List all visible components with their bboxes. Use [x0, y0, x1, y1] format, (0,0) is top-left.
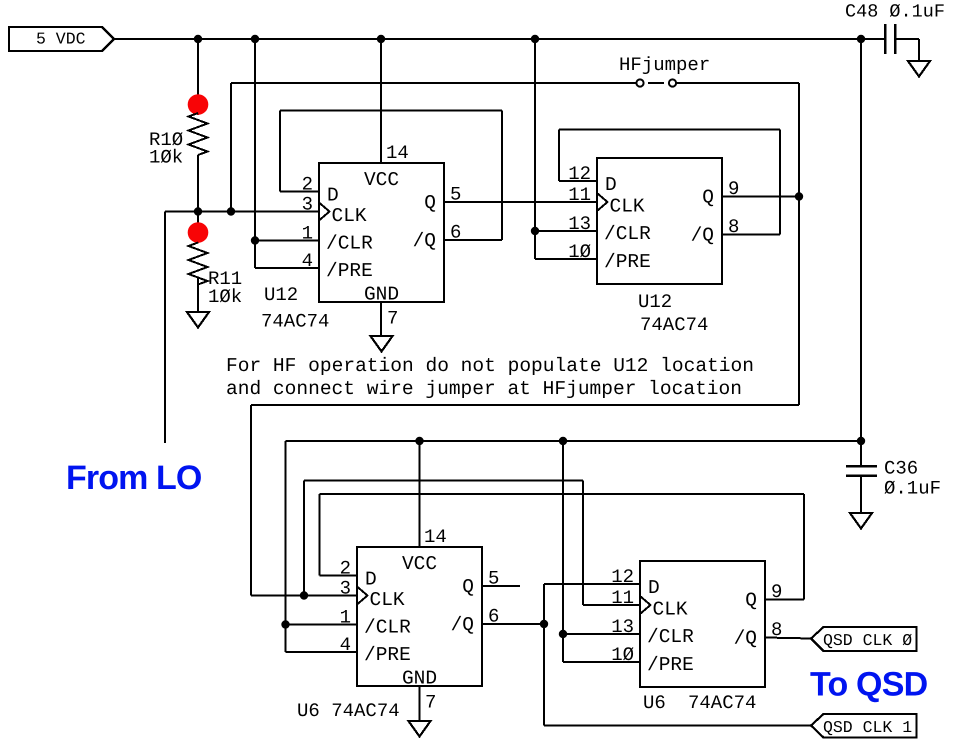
wire clk tie horizontal y480	[304, 480, 583, 482]
svg-text:3: 3	[340, 578, 351, 600]
svg-text:C48 Ø.1uF: C48 Ø.1uF	[845, 2, 945, 23]
svg-text:CLK: CLK	[370, 589, 405, 611]
svg-text:74AC74: 74AC74	[688, 692, 756, 714]
wire ring horizontal y494	[320, 493, 805, 495]
svg-text:/Q: /Q	[691, 225, 714, 247]
wire U12b pin13 CLR	[535, 230, 597, 232]
svg-text:/CLR: /CLR	[604, 223, 651, 245]
svg-text:and connect wire jumper at HFj: and connect wire jumper at HFjumper loca…	[226, 378, 742, 400]
svg-text:D: D	[605, 174, 617, 196]
svg-text:/CLR: /CLR	[364, 617, 411, 639]
wire U6a pin5 Q stub	[482, 585, 520, 587]
wire U12b loop right	[779, 130, 781, 235]
ground C48	[908, 61, 930, 77]
wire lower +5V rail	[286, 440, 862, 442]
wire clk tie left vertical x304	[303, 481, 305, 596]
wire x544 up to D12	[543, 584, 545, 624]
wire rail to U12a VCC14	[380, 39, 382, 163]
wire U12a pin6 /Q	[444, 239, 502, 241]
wire C48 node down to C36	[860, 39, 862, 466]
junction x304/CLK3	[300, 591, 308, 599]
wire U12a loop right	[501, 111, 503, 241]
resistor R10 (1Øk)	[149, 113, 208, 169]
wire rail to U12a CLR/PRE	[254, 39, 256, 268]
flip-flop U6a body	[357, 547, 482, 686]
wire U12a pin1 CLR	[255, 240, 319, 242]
resistor R11 (1Øk)	[189, 243, 243, 309]
wire rail to U12b CLR/PRE	[534, 39, 536, 259]
wire top +5V rail	[114, 38, 885, 40]
svg-text:U12: U12	[264, 284, 298, 306]
ground U12a pin7	[371, 336, 393, 352]
svg-text:GND: GND	[402, 668, 437, 690]
wire x544 down to CLK1	[543, 624, 545, 726]
svg-text:/CLR: /CLR	[326, 233, 373, 255]
svg-text:QSD CLK 1: QSD CLK 1	[823, 718, 912, 737]
svg-text:To QSD: To QSD	[810, 666, 928, 704]
wire U6b pin10 PRE	[563, 661, 640, 663]
capacitor C48 0.1uF	[885, 24, 919, 61]
svg-text:U12: U12	[638, 291, 672, 313]
junction y441/VCC14 U6a	[415, 437, 423, 445]
wire U6b pin12 D	[544, 583, 640, 585]
wire y441 to U6a VCC14	[419, 441, 421, 547]
ground U6a pin7	[409, 721, 431, 737]
svg-text:/Q: /Q	[413, 230, 436, 252]
svg-text:4: 4	[302, 250, 313, 272]
net flag QSD CLK 0	[811, 627, 917, 651]
wire x231 up to jumper	[230, 83, 232, 212]
junction rail/C48	[857, 35, 865, 43]
wire R11 to ground	[197, 279, 199, 313]
svg-text:/PRE: /PRE	[647, 654, 694, 676]
svg-text:/CLR: /CLR	[647, 626, 694, 648]
svg-text:VCC: VCC	[402, 553, 437, 575]
wire U12a Q5 to U12b CLK11	[444, 201, 597, 203]
svg-text:12: 12	[611, 566, 634, 588]
svg-text:CLK: CLK	[332, 205, 367, 227]
wire CLK node horizontal	[165, 211, 319, 213]
wire From LO stub	[164, 212, 166, 444]
junction x285/CLR1	[281, 620, 289, 628]
svg-text:/PRE: /PRE	[326, 260, 373, 282]
svg-text:VCC: VCC	[364, 169, 399, 191]
wire clk tie right vertical x583	[582, 481, 584, 606]
svg-text:Q: Q	[462, 576, 474, 598]
ground C36	[850, 513, 872, 529]
wire jumper right	[677, 82, 800, 84]
via/red dot on R11 top	[188, 222, 209, 243]
svg-text:11: 11	[568, 184, 591, 206]
junction x563/CLR13	[559, 630, 567, 638]
svg-text:U6: U6	[643, 692, 666, 714]
capacitor C36 0.1uF	[846, 466, 877, 513]
svg-text:1: 1	[340, 607, 351, 629]
svg-text:Q: Q	[745, 590, 757, 612]
wire U12b pin12 D	[559, 180, 597, 182]
wire x251 vertical	[250, 405, 252, 596]
U12b clock input triangle	[597, 193, 608, 211]
wire U6a pin6 /Q	[482, 623, 544, 625]
wire U6b pin8 /Q to QSD CLK 0	[765, 638, 812, 639]
flip-flop U6b body	[640, 561, 765, 687]
svg-text:CLK: CLK	[610, 196, 645, 218]
svg-text:C36: C36	[884, 458, 918, 480]
ground R11	[187, 312, 209, 328]
junction rail/x255	[251, 35, 259, 43]
wire x285 vertical	[285, 441, 287, 652]
svg-text:Ø.1uF: Ø.1uF	[884, 478, 941, 500]
junction x255/CLR1	[251, 236, 259, 244]
wire x563 vertical	[562, 441, 564, 662]
wire U12a pin2 D	[280, 191, 319, 193]
svg-text:D: D	[327, 185, 339, 207]
svg-text:/Q: /Q	[451, 614, 474, 636]
svg-text:1Ø: 1Ø	[568, 241, 591, 263]
svg-text:4: 4	[340, 634, 351, 656]
junction Q9/x799	[795, 192, 803, 200]
junction rail/x535	[531, 35, 539, 43]
svg-text:3: 3	[302, 194, 313, 216]
jumper HFjumper	[636, 79, 676, 86]
wire U6b pin13 CLR	[563, 633, 640, 635]
net flag QSD CLK 1	[811, 714, 917, 738]
wire U12b pin8 /Q	[722, 234, 780, 236]
wire U12b pin9 Q	[722, 196, 799, 198]
svg-text:/PRE: /PRE	[604, 251, 651, 273]
svg-text:For HF operation do not popula: For HF operation do not populate U12 loc…	[226, 355, 754, 377]
svg-text:7: 7	[425, 692, 436, 714]
svg-text:74AC74: 74AC74	[640, 314, 708, 336]
U6a GND pin 7 wire	[419, 687, 421, 721]
wire ring left vertical x319	[319, 494, 321, 576]
power flag 5 VDC	[9, 27, 114, 51]
junction rail/R10	[194, 35, 202, 43]
wire rail to R10	[197, 39, 199, 115]
wire U12a loop top	[280, 110, 502, 112]
wire x799 vertical	[798, 83, 800, 405]
svg-text:11: 11	[611, 587, 634, 609]
wire U6b pin9 Q	[765, 599, 804, 601]
junction node/R10-R11	[194, 207, 202, 215]
wire U12b loop top	[559, 129, 780, 131]
wire U6b pin11 CLK	[583, 604, 640, 606]
svg-text:Q: Q	[702, 187, 714, 209]
svg-text:D: D	[648, 577, 660, 599]
svg-text:1Ø: 1Ø	[611, 644, 634, 666]
svg-text:2: 2	[340, 558, 351, 580]
junction y441/x563	[559, 437, 567, 445]
svg-text:13: 13	[611, 616, 634, 638]
svg-text:U6 74AC74: U6 74AC74	[297, 700, 400, 722]
svg-text:14: 14	[424, 526, 447, 548]
svg-text:CLK: CLK	[653, 599, 688, 621]
wire U6a pin1 CLR	[286, 624, 358, 626]
U6a clock input triangle	[357, 587, 368, 605]
svg-text:/PRE: /PRE	[364, 644, 411, 666]
svg-text:From LO: From LO	[66, 459, 202, 497]
junction node/x231	[227, 207, 235, 215]
junction NQ6 node	[540, 620, 548, 628]
svg-text:5 VDC: 5 VDC	[36, 30, 86, 49]
svg-text:9: 9	[771, 581, 782, 603]
svg-text:13: 13	[568, 213, 591, 235]
wire U6a pin4 PRE	[286, 651, 358, 653]
svg-text:7: 7	[387, 308, 398, 330]
wire U6a pin2 D	[320, 575, 358, 577]
flip-flop U12a body	[319, 163, 444, 302]
svg-text:/Q: /Q	[734, 628, 757, 650]
junction y441/C36	[857, 437, 865, 445]
svg-text:1Øk: 1Øk	[149, 147, 183, 169]
wire U12a loop left	[279, 111, 281, 192]
wire jumper left	[231, 82, 636, 84]
wire node to R11	[197, 212, 199, 244]
svg-text:74AC74: 74AC74	[261, 311, 329, 333]
wire U6a pin3 CLK	[251, 595, 357, 597]
wire U12b loop left	[558, 130, 560, 182]
svg-text:HFjumper: HFjumper	[619, 54, 710, 76]
svg-text:1Øk: 1Øk	[208, 286, 242, 308]
flip-flop U12b body	[597, 158, 722, 284]
U12a GND pin 7 wire	[380, 302, 382, 336]
wire U12b pin10 PRE	[535, 258, 597, 260]
junction rail/VCC14 U12a	[377, 35, 385, 43]
svg-text:14: 14	[386, 142, 409, 164]
wire QSD CLK 1 wire	[544, 725, 812, 727]
U6b clock input triangle	[640, 596, 651, 614]
junction x535/CLR13	[531, 227, 539, 235]
svg-text:D: D	[365, 569, 377, 591]
U12a clock input triangle	[319, 203, 330, 221]
wire y405 horizontal	[251, 404, 799, 406]
svg-text:QSD CLK Ø: QSD CLK Ø	[823, 631, 912, 650]
svg-text:Q: Q	[424, 192, 436, 214]
svg-text:1: 1	[302, 223, 313, 245]
via/red dot on R10 top	[188, 94, 209, 115]
wire R10 to CLK node	[197, 155, 199, 212]
wire U12a pin4 PRE	[255, 267, 319, 269]
wire ring right vertical x804	[803, 494, 805, 600]
